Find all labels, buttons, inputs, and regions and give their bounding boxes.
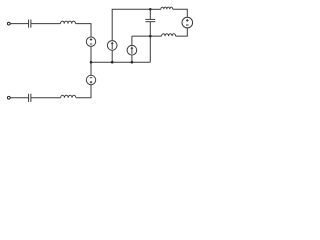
wire (top rail to L2) (150, 8, 161, 10)
terminal T2 (bottom-left input) (7, 96, 10, 99)
wire (31, 97, 61, 99)
wire (10, 23, 28, 25)
wire (I2 bottom lead) (131, 55, 133, 62)
voltage source V1 (+ top, - bottom) (86, 37, 95, 46)
current source I1 (arrow up) (107, 41, 117, 51)
capacitor C2 (145, 9, 155, 21)
wire (76, 85, 91, 98)
inductor L4 (61, 95, 76, 98)
inductor L1 (61, 21, 76, 23)
inductor L3 (162, 34, 176, 36)
wire (I1 top lead) (111, 50, 113, 62)
junction (left end of bottom bus) (90, 61, 93, 64)
junction (I1 on bus) (111, 61, 114, 64)
junction (I2 on bus) (131, 61, 134, 64)
junction (top rail / C2) (149, 8, 152, 11)
wire (176, 28, 188, 36)
capacitor C1 (29, 20, 31, 28)
junction (mid rail / C2 leg) (149, 35, 152, 38)
terminal T1 (top-left input) (7, 22, 10, 25)
wire (10, 97, 28, 99)
wire (bottom bus) (91, 61, 150, 63)
wire (76, 24, 92, 37)
capacitor C4 (29, 94, 31, 102)
wire (173, 9, 188, 17)
wire (mid rail) (132, 35, 162, 37)
wire (C2 bottom leg down to bus) (149, 22, 151, 63)
voltage source V2 (- top, + bottom) (86, 75, 95, 84)
voltage source V3 (+ top, - bottom) (182, 17, 193, 28)
wire (I2 top lead) (131, 36, 133, 45)
wire (90, 46, 92, 75)
wire (I1 to top rail) (112, 9, 150, 40)
wire (31, 23, 61, 25)
inductor L2 (161, 7, 173, 9)
current source I2 (arrow up) (127, 45, 137, 55)
